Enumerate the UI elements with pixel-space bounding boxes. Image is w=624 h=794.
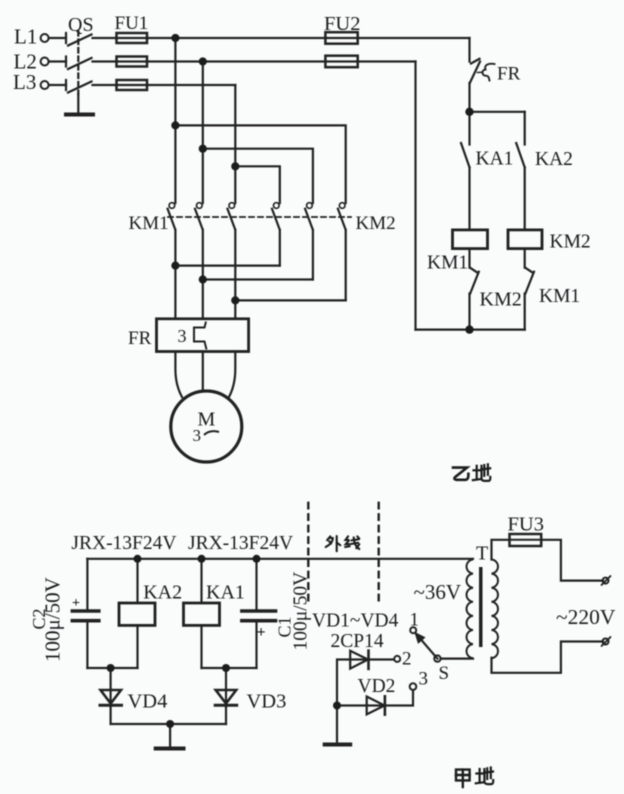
svg-text:2: 2 — [402, 649, 412, 670]
svg-text:100μ/50V: 100μ/50V — [291, 572, 312, 651]
svg-text:VD3: VD3 — [247, 691, 287, 713]
svg-text:L1: L1 — [14, 25, 37, 49]
svg-text:VD2: VD2 — [358, 676, 396, 697]
svg-text:VD4: VD4 — [128, 691, 168, 713]
svg-text:FU3: FU3 — [508, 514, 544, 536]
svg-text:JRX-13F24V: JRX-13F24V — [71, 533, 176, 554]
svg-text:QS: QS — [68, 14, 94, 36]
svg-text:KM2: KM2 — [356, 213, 396, 234]
svg-text:FU2: FU2 — [324, 13, 360, 35]
svg-text:FR: FR — [128, 328, 152, 349]
svg-text:S: S — [439, 663, 450, 684]
svg-text:KM1: KM1 — [129, 213, 169, 234]
svg-text:KM1: KM1 — [539, 286, 580, 307]
svg-text:3: 3 — [193, 426, 202, 445]
svg-text:3: 3 — [178, 326, 187, 346]
svg-text:FU1: FU1 — [115, 13, 149, 34]
svg-text:+: + — [72, 596, 80, 611]
svg-text:JRX-13F24V: JRX-13F24V — [188, 533, 293, 554]
svg-text:VD1~VD4: VD1~VD4 — [312, 611, 399, 632]
svg-text:KA2: KA2 — [143, 582, 182, 604]
svg-text:+: + — [257, 624, 266, 641]
svg-text:KM1: KM1 — [427, 253, 468, 274]
svg-text:T: T — [476, 543, 488, 565]
svg-text:~220V: ~220V — [556, 605, 616, 629]
svg-text:2CP14: 2CP14 — [331, 631, 384, 652]
svg-text:KA2: KA2 — [535, 149, 573, 170]
svg-text:1: 1 — [410, 610, 420, 631]
svg-text:KA1: KA1 — [206, 582, 245, 604]
svg-text:KM2: KM2 — [480, 289, 522, 311]
svg-text:3: 3 — [419, 669, 429, 690]
svg-text:KA1: KA1 — [476, 149, 514, 170]
svg-text:100μ/50V: 100μ/50V — [41, 577, 65, 662]
svg-text:L3: L3 — [13, 70, 36, 94]
svg-text:KM2: KM2 — [550, 232, 591, 253]
svg-text:~36V: ~36V — [414, 580, 462, 604]
svg-text:FR: FR — [497, 64, 521, 85]
